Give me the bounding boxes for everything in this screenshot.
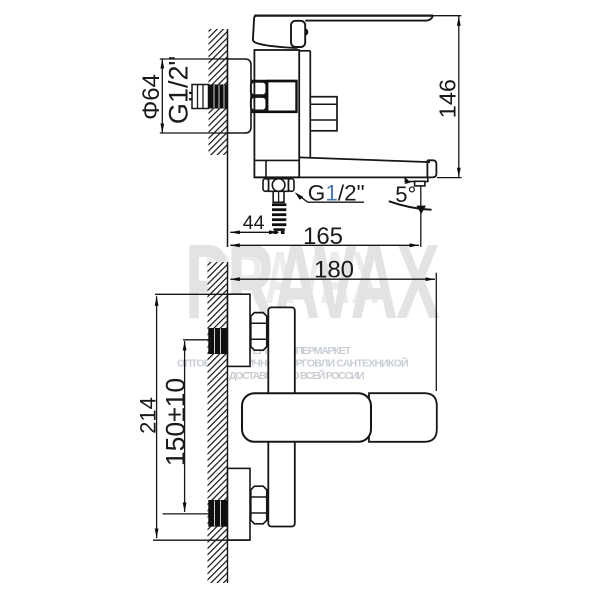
svg-text:165: 165 [303, 223, 343, 250]
svg-text:150±10: 150±10 [161, 378, 191, 466]
svg-text:G1/2": G1/2" [308, 181, 365, 206]
svg-text:180: 180 [314, 257, 354, 284]
svg-text:G1/2": G1/2" [164, 56, 194, 124]
svg-text:146: 146 [434, 79, 460, 118]
svg-text:214: 214 [135, 397, 160, 434]
svg-text:5°: 5° [395, 182, 416, 207]
svg-text:Φ64: Φ64 [138, 74, 165, 120]
svg-text:44: 44 [243, 212, 265, 234]
